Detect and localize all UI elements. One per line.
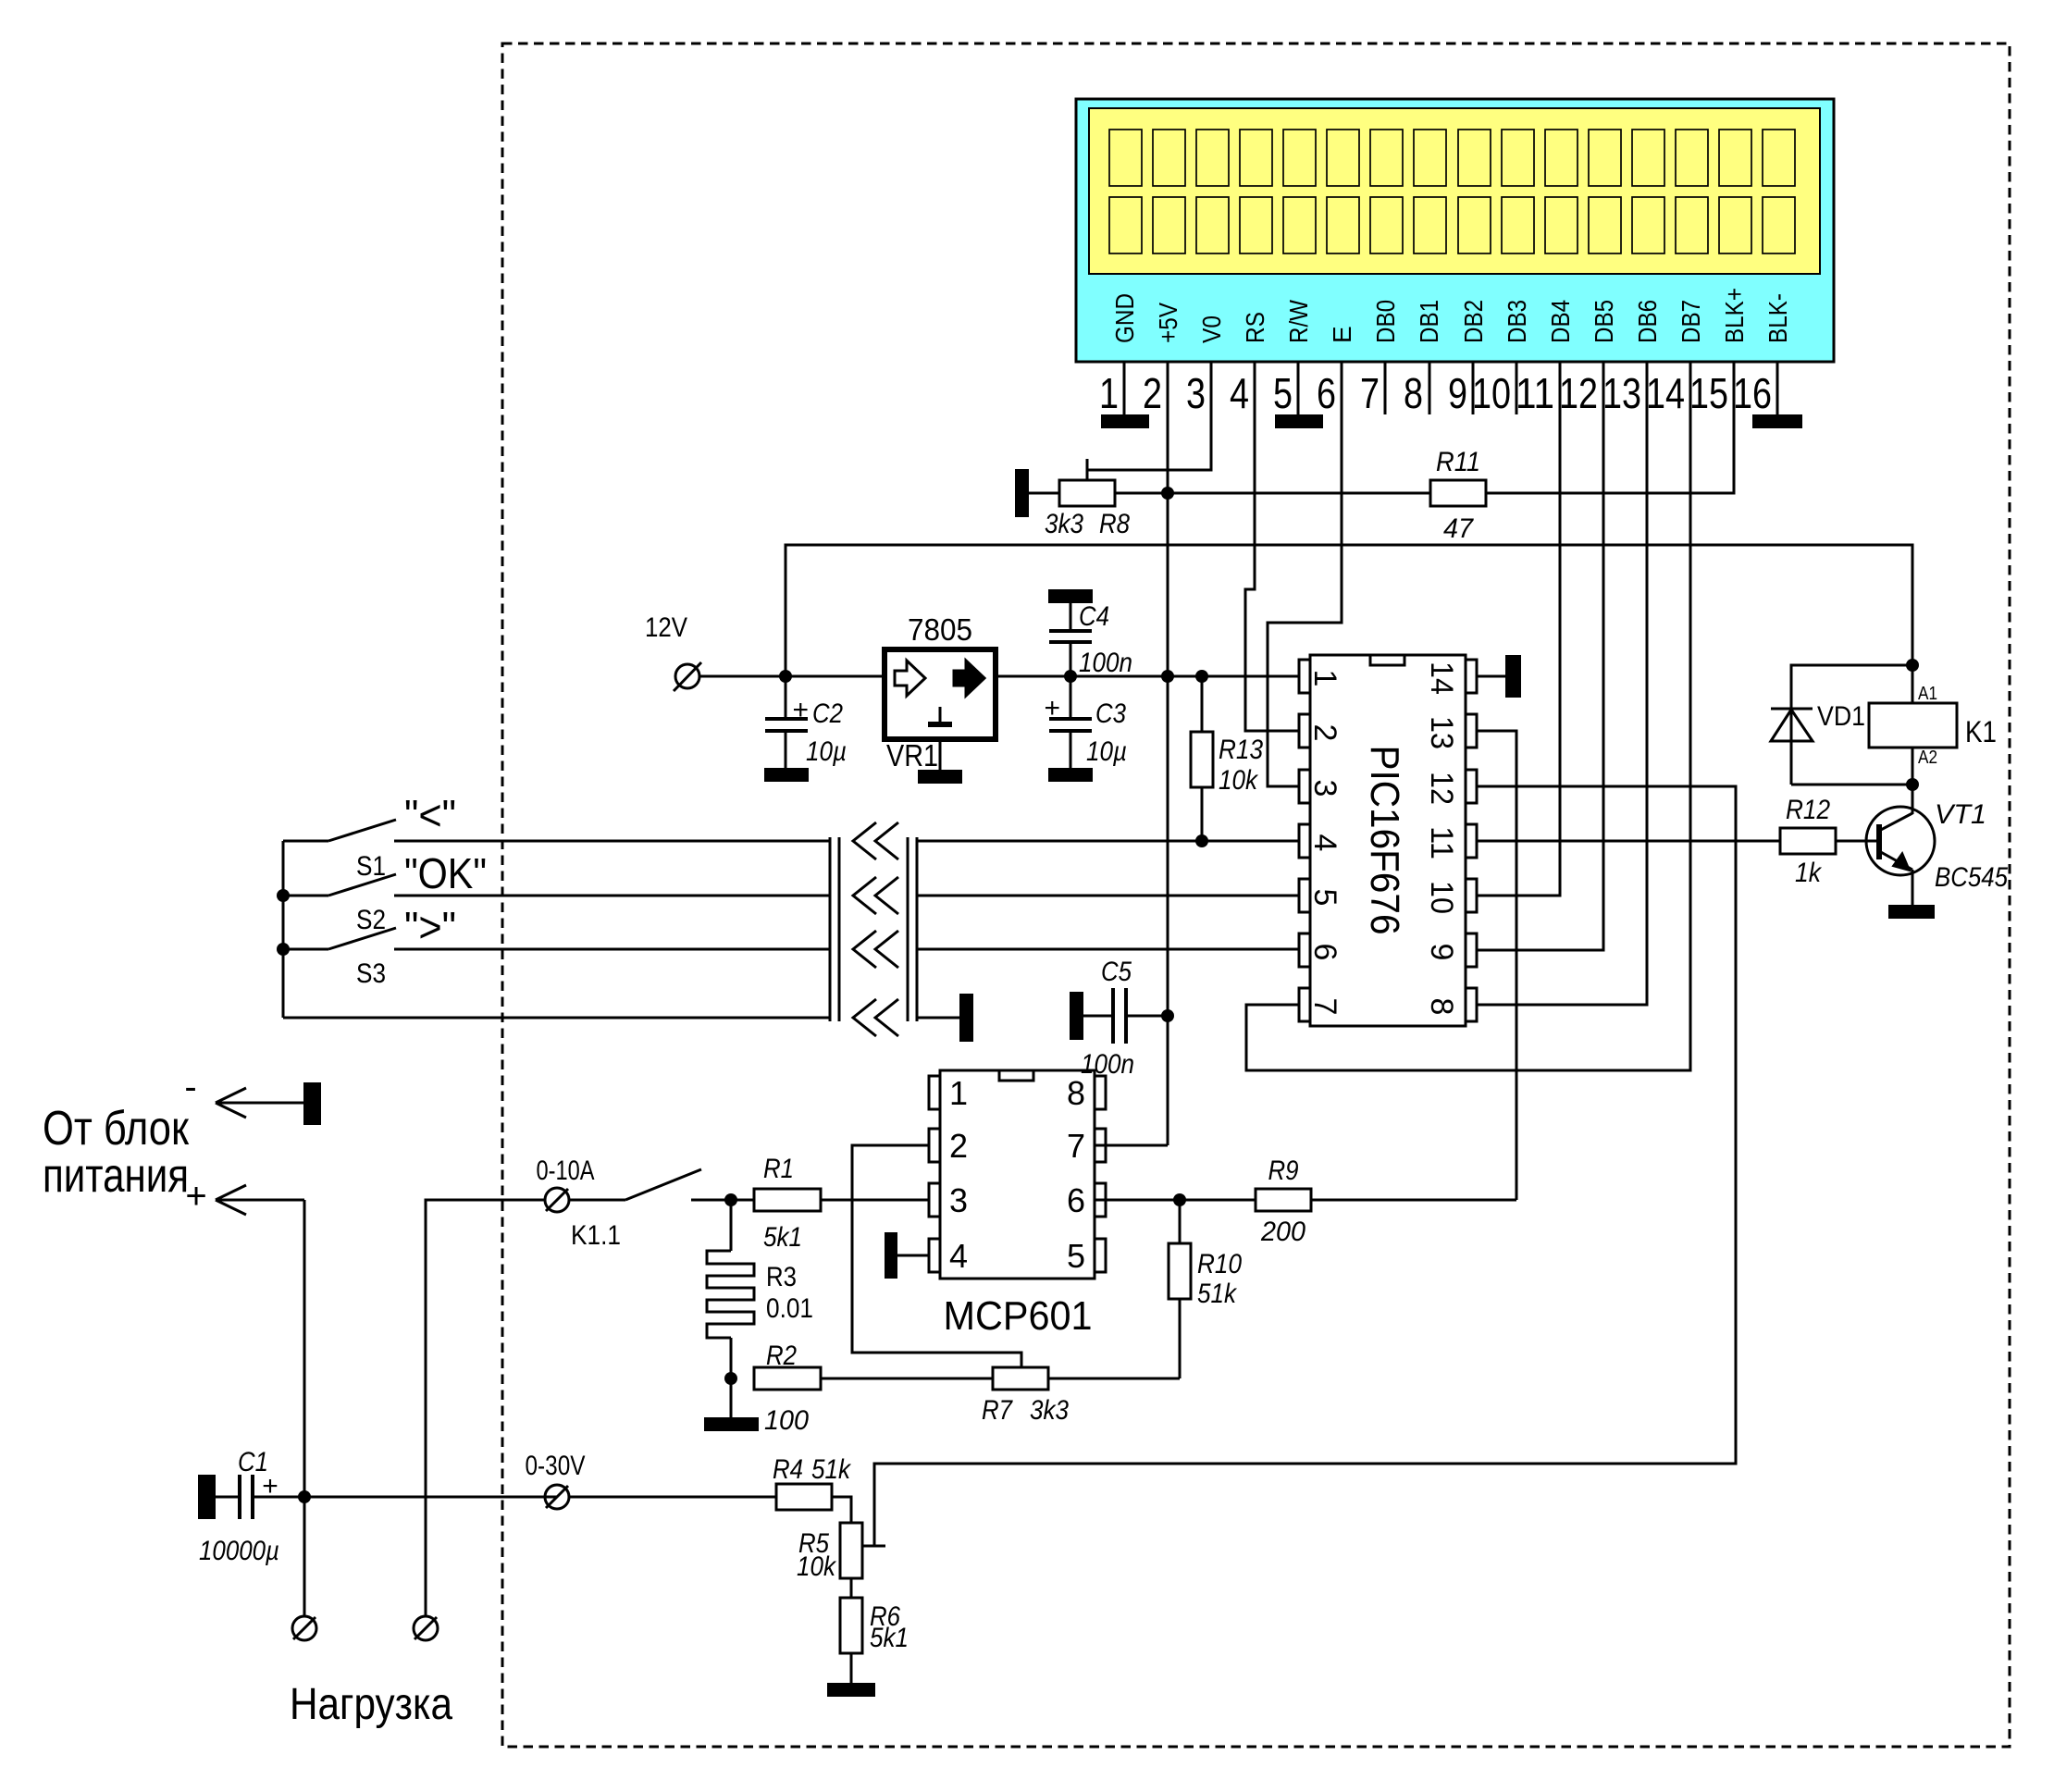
svg-text:6: 6 bbox=[1307, 944, 1343, 961]
svg-text:"<": "<" bbox=[404, 791, 456, 839]
svg-text:R8: R8 bbox=[1099, 509, 1130, 539]
svg-text:8: 8 bbox=[1424, 998, 1459, 1016]
svg-text:3: 3 bbox=[1186, 369, 1206, 417]
svg-text:12V: 12V bbox=[645, 612, 687, 643]
shunt resistor R3 (0.01) bbox=[707, 1200, 754, 1417]
ground R6 bbox=[827, 1683, 875, 1697]
svg-text:BLK+: BLK+ bbox=[1720, 288, 1749, 343]
capacitor C5 (100n) bbox=[1083, 988, 1168, 1044]
wire LCD pin 6 E to PIC pin 3 bbox=[1268, 362, 1342, 786]
wire LCD pin 2 +5V rail (down to MCP601 pin 7) bbox=[1167, 362, 1169, 1145]
ground MCP601 pin 4 bbox=[885, 1232, 897, 1279]
wire LCD pin 4 RS to PIC pin 2 bbox=[1245, 362, 1299, 731]
node R13 top junction bbox=[1195, 670, 1208, 683]
svg-text:12: 12 bbox=[1559, 369, 1598, 417]
ground C4 (top) bbox=[1048, 589, 1093, 603]
ground PIC pin 14 bbox=[1505, 655, 1521, 698]
ground VT1 emitter bbox=[1888, 905, 1935, 919]
svg-text:DB0: DB0 bbox=[1371, 300, 1400, 343]
wire R6 to ground bbox=[850, 1653, 853, 1683]
svg-text:5: 5 bbox=[1273, 369, 1293, 417]
wire 0-30V to R4 bbox=[569, 1496, 776, 1499]
node R8/+5V junction bbox=[1161, 487, 1174, 500]
resistor R10 bbox=[1169, 1200, 1191, 1378]
svg-text:14: 14 bbox=[1424, 661, 1459, 695]
switch S1 bbox=[283, 820, 830, 841]
wire VR1 ground lead bbox=[939, 739, 942, 770]
terminal 0-30V bbox=[545, 1485, 569, 1509]
PIC16F676 right pin numbers bbox=[1424, 661, 1459, 1015]
svg-text:7: 7 bbox=[1307, 998, 1343, 1016]
svg-text:10: 10 bbox=[1424, 881, 1459, 914]
MCP601 right pins 8-5 bbox=[1095, 1076, 1106, 1272]
svg-text:3: 3 bbox=[1307, 780, 1343, 797]
svg-text:C4: C4 bbox=[1079, 601, 1109, 632]
wire MCP601 pin 6 to R9 bbox=[1095, 1199, 1256, 1202]
resistor R9 bbox=[1256, 1189, 1311, 1211]
wire R7 to R10 bbox=[1048, 1378, 1180, 1380]
IC U1 PIC16F676 body bbox=[1310, 655, 1466, 1026]
svg-text:3: 3 bbox=[949, 1181, 968, 1219]
wire switch common to ground bbox=[283, 1017, 830, 1020]
svg-text:15: 15 bbox=[1689, 369, 1728, 417]
ground C1 bbox=[198, 1475, 216, 1519]
svg-text:"OK": "OK" bbox=[404, 849, 487, 897]
node +5V junction at 7805 output bbox=[1161, 670, 1174, 683]
LCD character cells bbox=[1109, 130, 1795, 253]
wire MCP601 pin 4 to ground bbox=[897, 1254, 929, 1257]
potentiometer R7 bbox=[993, 1353, 1048, 1390]
svg-text:14: 14 bbox=[1646, 369, 1685, 417]
wire relay A1 lead bbox=[1912, 665, 1914, 703]
svg-text:1: 1 bbox=[1307, 670, 1343, 687]
svg-text:100n: 100n bbox=[1081, 1049, 1134, 1080]
wire S1 to PIC pin 4 bbox=[917, 840, 1299, 843]
PIC16F676 left pin numbers bbox=[1307, 670, 1343, 1016]
node relay bottom junction bbox=[1906, 778, 1919, 791]
svg-text:10k: 10k bbox=[797, 1551, 837, 1582]
svg-text:9: 9 bbox=[1424, 944, 1459, 961]
wire common to ground bar bbox=[917, 1017, 959, 1020]
svg-text:C5: C5 bbox=[1101, 957, 1132, 987]
svg-text:10000µ: 10000µ bbox=[199, 1536, 279, 1566]
terminal load plus bbox=[292, 1616, 316, 1640]
wire stub LCD pin 9 DB2 bbox=[1472, 362, 1475, 414]
svg-text:A1: A1 bbox=[1918, 684, 1937, 704]
ground C3 bbox=[1048, 768, 1093, 782]
relay contact K1.1 bbox=[625, 1169, 754, 1200]
wire LCD pin 13 DB6 to PIC pin 8 bbox=[1477, 362, 1647, 1005]
svg-text:+: + bbox=[262, 1471, 278, 1502]
MCP601 left pins 1-4 bbox=[929, 1076, 940, 1272]
svg-text:DB1: DB1 bbox=[1415, 300, 1443, 343]
svg-text:7: 7 bbox=[1360, 369, 1380, 417]
node S2 tap bbox=[277, 889, 290, 902]
node R2/R3 junction bbox=[724, 1372, 737, 1385]
wire 7805 output to PIC pin 1 bbox=[996, 675, 1299, 678]
node C1 junction bbox=[298, 1490, 311, 1503]
svg-text:8: 8 bbox=[1404, 369, 1423, 417]
svg-text:11: 11 bbox=[1516, 369, 1554, 417]
terminal 0-10A bbox=[545, 1188, 569, 1212]
svg-text:VT1: VT1 bbox=[1935, 799, 1986, 830]
svg-text:2: 2 bbox=[1307, 724, 1343, 742]
wire PIC pin 11 to R12 bbox=[1477, 840, 1780, 843]
MCP601 right pin numbers bbox=[1067, 1074, 1085, 1275]
svg-text:S1: S1 bbox=[356, 851, 386, 882]
wire LCD pin 11 DB4 to PIC pin 10 bbox=[1477, 362, 1560, 896]
wire to VT1 collector bbox=[1912, 785, 1914, 814]
svg-text:R12: R12 bbox=[1786, 795, 1830, 825]
svg-text:8: 8 bbox=[1067, 1074, 1085, 1112]
node relay top junction bbox=[1906, 659, 1919, 672]
wire 12V terminal to junction bbox=[699, 675, 885, 678]
svg-text:9: 9 bbox=[1448, 369, 1467, 417]
wire stub LCD pin 10 DB3 bbox=[1516, 362, 1518, 414]
ground switch common bbox=[959, 994, 973, 1042]
svg-text:RS: RS bbox=[1241, 312, 1269, 343]
wire stub LCD pin 8 DB1 bbox=[1429, 362, 1431, 414]
svg-text:PIC16F676: PIC16F676 bbox=[1362, 746, 1407, 935]
svg-text:4: 4 bbox=[1230, 369, 1249, 417]
svg-text:1k: 1k bbox=[1795, 858, 1823, 888]
svg-text:0.01: 0.01 bbox=[766, 1293, 813, 1324]
svg-text:5: 5 bbox=[1067, 1237, 1085, 1275]
svg-text:S3: S3 bbox=[356, 958, 386, 989]
ground R8 bbox=[1015, 469, 1029, 517]
svg-text:+5V: +5V bbox=[1154, 303, 1182, 343]
node R13 bottom junction bbox=[1195, 834, 1208, 847]
wire plus input down to C1 line bbox=[303, 1200, 306, 1615]
wire R1 to MCP601 pin 3 bbox=[821, 1199, 929, 1202]
PCB boundary (dashed border) bbox=[502, 43, 2010, 1747]
svg-text:5k1: 5k1 bbox=[763, 1222, 802, 1253]
potentiometer R5 bbox=[840, 1523, 885, 1578]
svg-text:6: 6 bbox=[1317, 369, 1336, 417]
svg-text:R11: R11 bbox=[1436, 447, 1480, 477]
svg-text:2: 2 bbox=[1143, 369, 1162, 417]
svg-text:K1: K1 bbox=[1965, 715, 1997, 748]
PIC16F676 right pins 14-8 bbox=[1466, 660, 1477, 1021]
svg-text:1: 1 bbox=[949, 1074, 968, 1112]
resistor R13 bbox=[1191, 676, 1213, 841]
svg-text:R7: R7 bbox=[982, 1395, 1013, 1426]
svg-text:MCP601: MCP601 bbox=[944, 1293, 1093, 1339]
relay coil K1 bbox=[1869, 703, 1957, 748]
svg-text:+: + bbox=[1044, 693, 1060, 723]
svg-text:R13: R13 bbox=[1219, 735, 1263, 765]
resistor R12 bbox=[1780, 828, 1836, 854]
svg-text:13: 13 bbox=[1424, 716, 1459, 749]
wire +12V rail to relay bbox=[786, 545, 1912, 676]
cable crossing bars bbox=[830, 837, 917, 1021]
wire R5 to R6 bbox=[850, 1578, 853, 1598]
transistor VT1 (BC545 NPN) bbox=[1866, 807, 1935, 905]
svg-text:10µ: 10µ bbox=[1086, 736, 1127, 767]
wire junction to VD1 top bbox=[1791, 665, 1912, 709]
svg-text:11: 11 bbox=[1424, 826, 1459, 859]
svg-text:R4: R4 bbox=[773, 1454, 803, 1485]
svg-text:BC545: BC545 bbox=[1935, 862, 2008, 893]
LCD pin labels GND..BLK- bbox=[1110, 288, 1792, 343]
wire PIC pin 13 to R9 (AN0 current sense) bbox=[1477, 731, 1516, 1200]
wire switch common bus bbox=[282, 841, 285, 1018]
svg-text:R1: R1 bbox=[763, 1154, 794, 1184]
wire LCD pin 15 BLK+ to R11 bbox=[1486, 362, 1734, 493]
MCP601 left pin numbers bbox=[949, 1074, 968, 1275]
resistor R6 bbox=[840, 1598, 862, 1653]
LCD module HG1 body (cyan) bbox=[1076, 99, 1834, 362]
cable chevrons bbox=[853, 822, 898, 1036]
svg-text:V0: V0 bbox=[1197, 315, 1226, 343]
node C5 junction on +5V bbox=[1161, 1009, 1174, 1022]
diode VD1 bbox=[1771, 709, 1813, 785]
wire MCP601 pin 2 to R7 wiper bbox=[852, 1145, 1021, 1365]
wire load sense riser bbox=[426, 1200, 544, 1615]
svg-text:3k3: 3k3 bbox=[1045, 509, 1083, 539]
wire 0-10A to K1.1 bbox=[569, 1199, 625, 1202]
svg-text:DB7: DB7 bbox=[1677, 300, 1705, 343]
svg-text:7: 7 bbox=[1067, 1127, 1085, 1165]
node R1/R3 junction bbox=[724, 1193, 737, 1206]
svg-text:1: 1 bbox=[1099, 369, 1119, 417]
svg-text:4: 4 bbox=[1307, 834, 1343, 852]
wire R9 to PIC pin 13 riser bbox=[1311, 1199, 1516, 1202]
resistor R11 bbox=[1430, 480, 1486, 506]
svg-text:DB2: DB2 bbox=[1459, 300, 1488, 343]
svg-text:4: 4 bbox=[949, 1237, 968, 1275]
svg-text:12: 12 bbox=[1424, 772, 1459, 805]
ground LCD pin 16 bbox=[1752, 414, 1802, 428]
svg-text:10: 10 bbox=[1472, 369, 1511, 417]
svg-text:BLK-: BLK- bbox=[1763, 293, 1792, 343]
resistor R1 bbox=[754, 1189, 821, 1211]
wire LCD pin 1 GND bbox=[1123, 362, 1126, 414]
svg-text:">": ">" bbox=[404, 903, 456, 951]
svg-text:10k: 10k bbox=[1219, 765, 1259, 796]
ground C5 bbox=[1070, 992, 1083, 1040]
IC U2 MCP601 body bbox=[940, 1070, 1095, 1279]
wire R7 to R2 bbox=[821, 1378, 993, 1380]
svg-text:R/W: R/W bbox=[1284, 300, 1313, 343]
wire stub LCD pin 7 DB0 bbox=[1384, 362, 1387, 414]
voltage regulator VR1 7805 box bbox=[885, 649, 996, 739]
svg-text:R10: R10 bbox=[1197, 1249, 1242, 1279]
svg-text:DB3: DB3 bbox=[1503, 300, 1531, 343]
svg-text:DB4: DB4 bbox=[1546, 300, 1575, 343]
wire MCP601 pin 7 to +5V bbox=[1095, 1144, 1168, 1147]
switch S2 bbox=[283, 874, 830, 896]
wire S3 to PIC pin 6 bbox=[917, 948, 1299, 951]
capacitor C2 (10u electrolytic) bbox=[765, 676, 808, 768]
wire LCD pin 5 R/W bbox=[1297, 362, 1300, 414]
svg-text:Нагрузка: Нагрузка bbox=[290, 1680, 452, 1729]
ground minus input bbox=[303, 1082, 321, 1125]
svg-text:7805: 7805 bbox=[908, 612, 972, 647]
node C4/C3 junction bbox=[1064, 670, 1077, 683]
svg-text:DB6: DB6 bbox=[1633, 300, 1662, 343]
svg-text:13: 13 bbox=[1602, 369, 1641, 417]
ground C2 bbox=[764, 768, 809, 782]
potentiometer R8 bbox=[1059, 459, 1115, 506]
svg-text:От блок: От блок bbox=[43, 1102, 189, 1156]
svg-text:200: 200 bbox=[1260, 1217, 1305, 1247]
wire S2 to PIC pin 5 bbox=[917, 895, 1299, 897]
svg-text:0-30V: 0-30V bbox=[526, 1451, 586, 1481]
svg-text:S2: S2 bbox=[356, 905, 386, 935]
capacitor C4 (100n) bbox=[1049, 603, 1092, 676]
ground LCD pin 5 bbox=[1275, 414, 1323, 428]
wire PIC pin 14 to ground bbox=[1477, 675, 1505, 678]
svg-text:6: 6 bbox=[1067, 1181, 1085, 1219]
LCD pin numbers 1-16 bbox=[1099, 369, 1772, 417]
svg-text:+: + bbox=[185, 1176, 206, 1217]
ground VR1 bbox=[918, 770, 962, 784]
svg-text:C2: C2 bbox=[812, 698, 843, 729]
node S3 tap bbox=[277, 943, 290, 956]
capacitor C1 (10000u electrolytic) bbox=[216, 1475, 557, 1519]
svg-text:5k1: 5k1 bbox=[870, 1623, 909, 1653]
resistor R4 bbox=[776, 1484, 832, 1510]
wire PIC pin 12 to R5 wiper (AN1 voltage sense) bbox=[874, 786, 1736, 1546]
wire LCD pin 12 DB5 to PIC pin 9 bbox=[1477, 362, 1603, 950]
LCD screen (yellow) bbox=[1089, 108, 1820, 274]
node MCP601 pin 6 junction bbox=[1173, 1193, 1186, 1206]
svg-text:10µ: 10µ bbox=[806, 736, 847, 767]
wire LCD pin 14 DB7 to PIC pin 7 bbox=[1246, 362, 1690, 1070]
arrow plus input bbox=[216, 1185, 304, 1215]
svg-text:51k: 51k bbox=[1197, 1279, 1238, 1309]
node 12V/C2 junction bbox=[779, 670, 792, 683]
svg-text:0-10A: 0-10A bbox=[537, 1156, 595, 1186]
wire LCD pin 16 BLK- bbox=[1776, 362, 1779, 414]
svg-text:питания: питания bbox=[43, 1149, 189, 1203]
svg-text:51k: 51k bbox=[811, 1454, 852, 1485]
terminal 12V input bbox=[675, 664, 699, 688]
svg-text:100n: 100n bbox=[1079, 648, 1132, 678]
wire relay A2 lead bbox=[1912, 748, 1914, 785]
svg-text:5: 5 bbox=[1307, 889, 1343, 907]
svg-text:VD1: VD1 bbox=[1817, 701, 1865, 732]
wire R12 to VT1 base bbox=[1836, 840, 1879, 843]
svg-text:2: 2 bbox=[949, 1127, 968, 1165]
svg-text:K1.1: K1.1 bbox=[571, 1220, 621, 1251]
svg-text:GND: GND bbox=[1110, 293, 1139, 343]
svg-text:DB5: DB5 bbox=[1590, 300, 1618, 343]
wire R4 to R5 bbox=[832, 1497, 851, 1523]
svg-text:VR1: VR1 bbox=[886, 738, 938, 772]
svg-text:3k3: 3k3 bbox=[1030, 1395, 1069, 1426]
svg-text:E: E bbox=[1328, 326, 1356, 343]
svg-text:R2: R2 bbox=[766, 1341, 797, 1371]
svg-text:16: 16 bbox=[1733, 369, 1772, 417]
svg-text:+: + bbox=[792, 695, 809, 725]
resistor R2 bbox=[754, 1367, 821, 1390]
wire LCD pin 3 V0 to R8 wiper bbox=[1087, 362, 1211, 470]
svg-text:A2: A2 bbox=[1918, 748, 1937, 768]
ground LCD pin 1 bbox=[1101, 414, 1149, 428]
svg-text:R3: R3 bbox=[766, 1262, 797, 1292]
PIC16F676 left pins 1-7 bbox=[1299, 660, 1310, 1021]
wire ground to R8 bbox=[1029, 492, 1059, 495]
wire R8 to +5V junction bbox=[1115, 492, 1430, 495]
arrow minus input bbox=[216, 1088, 303, 1118]
ground R3 bbox=[704, 1417, 759, 1431]
svg-text:R9: R9 bbox=[1268, 1156, 1299, 1186]
svg-text:47: 47 bbox=[1443, 513, 1474, 544]
capacitor C3 (10u electrolytic) bbox=[1049, 676, 1092, 768]
switch S3 bbox=[283, 928, 830, 949]
svg-text:C3: C3 bbox=[1095, 698, 1126, 729]
svg-text:100: 100 bbox=[764, 1405, 809, 1436]
terminal load sense bbox=[414, 1616, 438, 1640]
wire VD1 bottom to relay A2 node bbox=[1791, 784, 1912, 786]
